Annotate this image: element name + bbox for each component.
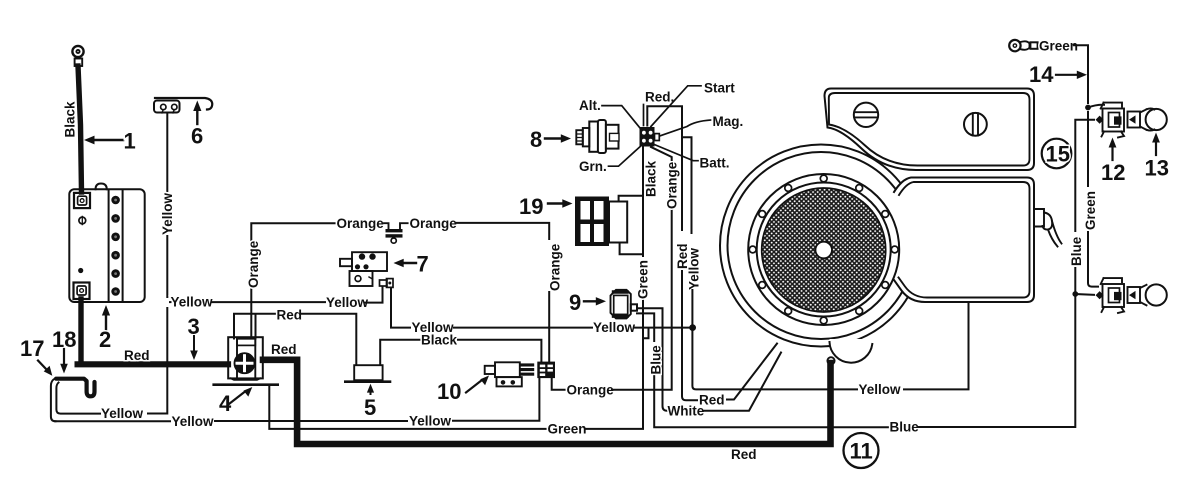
svg-text:Orange: Orange (567, 382, 615, 397)
junction dot blue at lamp 2 (1072, 291, 1078, 297)
wire orange to connector 10 (x549) (456, 223, 549, 239)
svg-text:1: 1 (124, 129, 136, 154)
svg-text:13: 13 (1145, 156, 1169, 181)
wire green lamp bus (1087, 112, 1089, 186)
flywheel housing (720, 145, 922, 347)
green ring terminal (top right) (1009, 40, 1037, 51)
engine right tab (1034, 209, 1044, 227)
arrow 2 (102, 305, 110, 333)
svg-text:Red: Red (731, 447, 757, 462)
svg-text:Blue: Blue (1069, 236, 1084, 266)
lamp bulb 13 (top) (1128, 108, 1167, 130)
bolt holes (749, 175, 898, 324)
wire yellow from relay plug down to yellow bus y327.5 (391, 288, 410, 328)
wire red thick from solenoid 4 to engine (bottom run) (263, 360, 831, 444)
wire red thick battery to starter solenoid 4 (78, 361, 228, 367)
svg-text:Yellow: Yellow (687, 247, 702, 290)
svg-text:Orange: Orange (246, 240, 261, 288)
svg-text:Orange: Orange (548, 243, 563, 291)
svg-text:Black: Black (63, 101, 78, 138)
blower shroud (top box) (825, 89, 1035, 171)
arrow 12 (1109, 138, 1117, 161)
battery 2 (69, 184, 144, 303)
arrow 9 (584, 297, 606, 305)
svg-text:Green: Green (548, 421, 587, 436)
arrow 3 (190, 336, 198, 360)
svg-text:Yellow: Yellow (101, 406, 144, 421)
svg-text:Blue: Blue (649, 345, 664, 375)
callout circle 11 (844, 433, 879, 468)
starter bump (829, 339, 872, 366)
wire red ignition to engine (647, 106, 682, 230)
flywheel bolt ring (748, 174, 899, 325)
svg-text:Green: Green (1083, 191, 1098, 230)
svg-text:Yellow: Yellow (593, 320, 636, 335)
wire yellow mid (x167 riser to relay 7) (169, 301, 172, 303)
svg-text:Black: Black (644, 160, 659, 197)
connector 10 mate (black block) (537, 362, 555, 379)
ignition switch 8 (576, 120, 619, 153)
svg-text:12: 12 (1101, 160, 1125, 185)
svg-text:Yellow: Yellow (160, 192, 175, 235)
wire black from switch 5 to connector 10 (380, 340, 420, 365)
svg-text:Yellow: Yellow (171, 295, 214, 310)
svg-text:Red.: Red. (645, 90, 674, 105)
relay 7 (340, 252, 387, 286)
junction dot green at lamp 1 (1085, 105, 1091, 111)
arrow 14 (1056, 71, 1087, 79)
wire white from meter 9 (upper) (637, 308, 667, 411)
svg-text:Grn.: Grn. (579, 159, 607, 174)
svg-text:Red: Red (271, 342, 297, 357)
battery cable ring terminal (72, 46, 83, 66)
svg-text:Yellow: Yellow (326, 295, 369, 310)
wire black battery cable (bottom) joins thick red (78, 299, 83, 362)
arrow 6 (193, 101, 201, 125)
svg-text:Black: Black (421, 332, 458, 347)
svg-text:11: 11 (850, 439, 873, 464)
svg-text:17: 17 (20, 336, 44, 361)
arrow 1 (84, 136, 123, 145)
svg-text:Mag.: Mag. (713, 114, 744, 129)
svg-text:Batt.: Batt. (700, 156, 730, 171)
svg-text:9: 9 (569, 290, 581, 315)
svg-text:Yellow: Yellow (409, 414, 452, 429)
arrow 4 (229, 387, 252, 404)
svg-text:Orange: Orange (410, 216, 458, 231)
svg-text:10: 10 (437, 379, 461, 404)
svg-text:Green: Green (1039, 38, 1078, 53)
svg-text:6: 6 (191, 124, 203, 149)
brake switch 5 (345, 365, 390, 382)
lamp bulb (bottom) (1128, 284, 1167, 305)
wire red solenoid top feed (to brake switch 5) (234, 314, 275, 339)
arrow 8 (545, 134, 571, 142)
junction dot engine red lead (827, 357, 834, 364)
wire orange vertical to solenoid 4 (250, 289, 252, 338)
svg-text:8: 8 (530, 127, 542, 152)
svg-text:Blue: Blue (890, 420, 920, 435)
wire yellow ignition to yellow bus and engine (682, 137, 692, 233)
starter solenoid 4 (214, 337, 278, 385)
svg-text:7: 7 (417, 252, 429, 277)
arrow 5 (367, 384, 374, 394)
arrow 19 (548, 199, 573, 207)
svg-text:Yellow: Yellow (172, 414, 215, 429)
arrow 17 (38, 361, 52, 376)
wire orange from connector 10 right to ignition orange (552, 379, 565, 390)
junction dot yellow bus / ignition yellow (689, 324, 696, 331)
relay 7 output plug (380, 279, 394, 288)
arrow 13 (1152, 133, 1160, 156)
ignition connector plug (640, 127, 660, 147)
wire black/green trunk to connector 19 (642, 147, 644, 257)
svg-text:15: 15 (1046, 142, 1070, 167)
svg-text:Orange: Orange (337, 216, 385, 231)
interlock switch 10 (485, 362, 535, 386)
wire green bottom run (solenoid plate to connector 19) (269, 387, 546, 429)
svg-text:Yellow: Yellow (859, 382, 902, 397)
callout circle 15 (1042, 139, 1072, 169)
wire yellow from clip 6 down to bracket (x167) (166, 113, 168, 192)
wire blue from meter 9 (lower) to lamps (637, 313, 654, 341)
svg-text:14: 14 (1029, 62, 1054, 87)
svg-text:5: 5 (364, 395, 376, 420)
svg-text:Green: Green (636, 260, 651, 299)
hour meter 9 (611, 290, 638, 319)
engine block (right box) (894, 178, 1034, 303)
svg-text:Red: Red (277, 308, 303, 323)
ground strap 17/18 (51, 379, 100, 422)
flywheel screen (762, 188, 886, 312)
svg-text:Red: Red (699, 393, 725, 408)
arrow 7 (394, 259, 417, 267)
svg-text:Orange: Orange (665, 161, 680, 209)
shroud screw left (854, 103, 878, 127)
svg-text:Red: Red (124, 348, 150, 363)
shroud screw right (964, 113, 987, 136)
wire yellow outer long bottom run to connector 10 (56, 420, 171, 422)
svg-text:Alt.: Alt. (579, 98, 601, 113)
fuse clip 6 (154, 98, 212, 113)
arrow 18 (60, 349, 68, 374)
svg-text:Start: Start (704, 81, 735, 96)
arrow 10 (466, 376, 489, 393)
svg-text:19: 19 (519, 194, 543, 219)
lamp socket 12 (top) (1096, 103, 1124, 138)
inline connector (orange jumper) (384, 223, 408, 243)
connector 19 (575, 197, 627, 247)
black stub at yellow bus (644, 329, 649, 339)
engine 15 assembly (720, 89, 1062, 366)
svg-text:2: 2 (99, 327, 111, 352)
wire blue lamp bus (1075, 120, 1094, 231)
lamp socket (bottom) (1096, 278, 1124, 313)
wire black battery cable (top) (78, 66, 82, 192)
